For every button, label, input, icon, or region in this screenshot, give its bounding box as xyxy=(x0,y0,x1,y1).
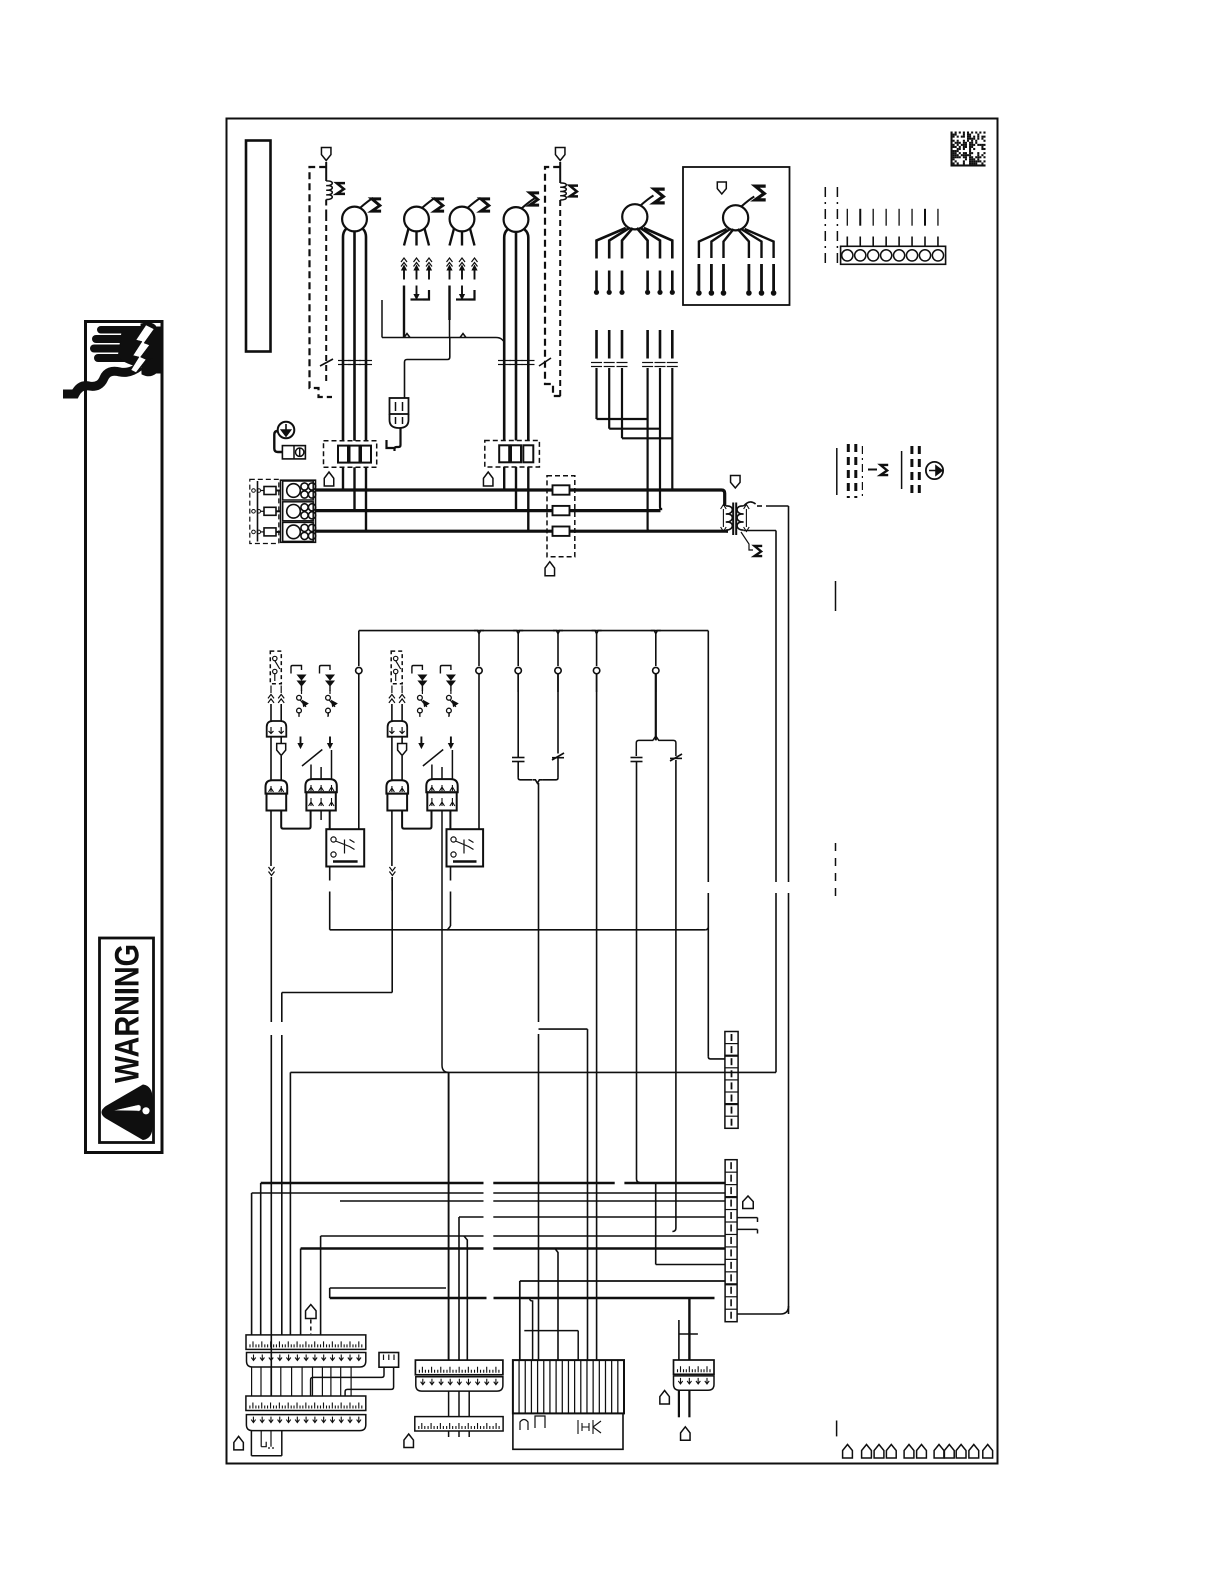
plug connector P1 xyxy=(267,721,287,737)
power distribution block TB1 xyxy=(281,480,316,542)
FB1 leads to buses xyxy=(342,467,344,490)
pressure switches group 2 xyxy=(418,695,423,700)
economizer connector D1 xyxy=(415,1360,503,1375)
label M1 xyxy=(372,199,381,211)
low pressure switch S1 xyxy=(270,651,281,684)
warning sidebar frame xyxy=(86,322,163,1153)
house marker below holder xyxy=(545,562,555,576)
M3 splice xyxy=(461,286,463,295)
fan motors common wire H1 xyxy=(382,337,496,339)
M2 splice xyxy=(416,286,418,295)
fuse output lead xyxy=(387,428,401,451)
HP2 output xyxy=(450,867,452,881)
TR1 secondary leads xyxy=(744,502,756,506)
COMP1 wires to junction jogs xyxy=(595,368,597,419)
inline fuse FU3 xyxy=(390,398,409,414)
field wiring cluster (line voltage) xyxy=(836,448,838,495)
house markers near F xyxy=(660,1391,670,1405)
diagram border frame xyxy=(227,119,998,1464)
disconnect arrows group 1 xyxy=(291,666,302,674)
contactor coil CC2a xyxy=(386,780,408,793)
contactor coil CC1a xyxy=(266,780,288,793)
low pressure switch S2 xyxy=(391,651,402,684)
high pressure switch box HP2 xyxy=(447,829,484,866)
contactor CC1b xyxy=(305,779,336,792)
main board harness strip A2 xyxy=(247,1353,366,1368)
shield marker above strip A xyxy=(306,1305,317,1319)
compressor COMP1 leads fan xyxy=(597,228,626,259)
TB1 field-side dashed box xyxy=(250,479,279,543)
connector C wires jog xyxy=(311,1367,384,1396)
ground lug GR xyxy=(278,422,295,439)
label TR1 xyxy=(741,532,753,550)
FB2 leads xyxy=(503,467,505,490)
CC2b middle lead xyxy=(441,811,443,1066)
dash-dot field wires xyxy=(824,187,826,267)
transformer TR1 xyxy=(731,476,741,489)
WARNING text xyxy=(109,944,147,1083)
COMP2 leads and pins xyxy=(699,229,727,258)
economizer connector D2 xyxy=(416,1377,503,1391)
contactor CC2b xyxy=(426,779,457,792)
wire to inline fuse xyxy=(405,338,450,399)
compressor COMP1 xyxy=(622,204,647,229)
CC2b top wires and interlock xyxy=(431,765,433,780)
motor M3 legs xyxy=(450,229,455,246)
title block xyxy=(246,141,271,352)
DataMatrix barcode xyxy=(951,132,986,167)
slash break mark on box 1 wire xyxy=(320,359,333,366)
house marker left bottom xyxy=(234,1436,244,1450)
motor M4 leads xyxy=(504,230,507,441)
label M4 xyxy=(530,193,539,205)
dashed enclosure box 1 (left) xyxy=(310,167,333,397)
right vertical connector strip CN1 xyxy=(725,1032,738,1129)
main board harness strip B1 xyxy=(246,1396,366,1411)
connector F1 xyxy=(674,1360,715,1374)
control return wire xyxy=(330,926,451,930)
vertical connector strip CN2 xyxy=(725,1160,737,1322)
house marker below FB2 xyxy=(483,472,493,486)
thick wire to main connector xyxy=(688,1298,690,1360)
harness tail bracket xyxy=(250,1431,252,1456)
junction Y to relay wire xyxy=(533,780,543,783)
inductor coil L2 in box 2 xyxy=(559,162,561,183)
shield marker in compressor box xyxy=(717,182,726,194)
D wires through xyxy=(448,1391,450,1417)
compressor bus taps xyxy=(648,529,650,531)
ground screw symbol xyxy=(926,462,943,479)
dashed enclosure box 2 (right) xyxy=(545,167,561,396)
short mark above houses xyxy=(836,1421,838,1437)
plug chevrons group 1 xyxy=(270,686,272,694)
alternate compressor box xyxy=(683,167,790,305)
plug chevrons group 2 xyxy=(391,686,393,694)
small connector C xyxy=(379,1353,399,1368)
CC1b right lead to HP1 xyxy=(329,811,331,830)
label M3 xyxy=(481,199,490,211)
inductor coil L1 in box 1 xyxy=(325,162,327,181)
compressor COMP2 xyxy=(723,205,748,230)
shield marker CN2 xyxy=(743,1196,754,1209)
high pressure switch box HP1 xyxy=(326,829,364,866)
COMP1 plug pins xyxy=(595,271,598,291)
M3 plug arrows xyxy=(447,258,453,262)
board enclosure outline xyxy=(513,1413,623,1449)
rail drops with terminals xyxy=(358,634,360,666)
motor M4 (condenser fan) xyxy=(504,207,529,232)
electric shock hand icon xyxy=(97,326,146,334)
label COMP2 xyxy=(755,186,765,200)
motor M1 leads xyxy=(343,229,346,441)
fuse block FB1 (dashed) xyxy=(324,441,377,468)
M4 left leg tap to H1 xyxy=(496,338,505,343)
group2 lower wires xyxy=(391,877,393,993)
label COMP1 xyxy=(654,189,664,203)
F2 feed jog xyxy=(678,1320,680,1360)
CC1b top wires and interlock xyxy=(310,765,312,780)
house marker near C xyxy=(404,1434,414,1448)
svg-text:WARNING: WARNING xyxy=(109,944,147,1083)
motor M2 legs xyxy=(404,229,409,246)
wires hanging to control board xyxy=(530,1298,533,1361)
motor M2 (fan) xyxy=(404,207,429,232)
disconnect arrows group 2 xyxy=(412,666,423,674)
capacitor branch wires xyxy=(517,674,519,757)
CC2b right lead to HP2 xyxy=(449,811,451,830)
main power buses L1 L2 L3 xyxy=(316,488,722,491)
capacitor mark xyxy=(631,757,643,759)
connector F2 xyxy=(674,1376,715,1390)
CC1b middle lead stub xyxy=(320,811,322,821)
M2 plug arrows xyxy=(401,258,407,262)
label M (coil 1) xyxy=(337,183,345,194)
NC contact branch xyxy=(557,674,559,753)
house marker below FB1 xyxy=(324,472,334,486)
split branch wires xyxy=(655,674,657,740)
motor M1 (condenser fan) xyxy=(342,207,367,232)
shield marker above dashed box 2 xyxy=(555,148,565,161)
shield marker group 1 xyxy=(270,737,272,780)
shield marker group 2 xyxy=(391,737,393,780)
plug connector P2 xyxy=(388,721,408,737)
thermostat wire drop xyxy=(596,674,598,1361)
pressure switches group 1 xyxy=(297,695,302,700)
shield marker above dashed box 1 xyxy=(321,148,331,161)
HP1 output xyxy=(329,867,331,881)
NC contact mark xyxy=(670,754,682,761)
main board harness strip B2 xyxy=(246,1415,365,1431)
slash break on box 2 edge xyxy=(539,358,551,366)
label M2 xyxy=(435,199,444,211)
stray mark xyxy=(835,581,837,611)
warning label box xyxy=(100,938,154,1143)
main board harness strip A1 xyxy=(246,1335,366,1350)
ladder rung wires xyxy=(261,1182,484,1185)
24V secondary wires down xyxy=(788,506,790,882)
control board CB xyxy=(513,1360,624,1413)
CC2a leads xyxy=(391,811,393,867)
label M (coil 2) xyxy=(570,186,578,197)
CC1a leads xyxy=(270,811,272,867)
ground terminal box xyxy=(282,446,305,459)
warning triangle icon xyxy=(102,1085,152,1140)
harness wires between strips xyxy=(251,1367,253,1396)
CN2 right stubs xyxy=(737,1217,757,1219)
bottom-right house markers row xyxy=(843,1445,853,1459)
motor M3 (fan) xyxy=(450,207,475,232)
board small symbols xyxy=(520,1420,528,1431)
24V control rail xyxy=(358,631,360,634)
long horizontal control wire xyxy=(290,1071,776,1073)
fuse block FB2 (dashed) xyxy=(485,441,540,468)
low voltage terminal strip TB2 xyxy=(841,246,946,264)
F wires down xyxy=(678,1390,680,1417)
connector D3 xyxy=(415,1417,503,1431)
24V wire into CN2 xyxy=(737,1306,788,1314)
bus inline fuse holders (dashed box) xyxy=(547,476,575,557)
